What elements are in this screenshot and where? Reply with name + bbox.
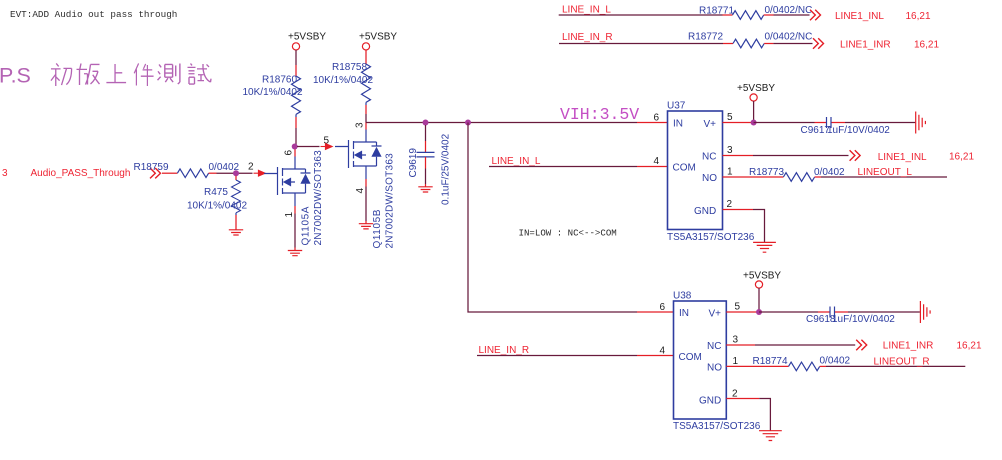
svg-text:5: 5 (727, 112, 733, 123)
junction node V+ U38 (756, 309, 762, 315)
svg-text:IN: IN (673, 119, 683, 130)
svg-text:C9619: C9619 (408, 148, 419, 178)
pin stub U38 V+ (726, 311, 759, 313)
svg-text:IN: IN (679, 308, 689, 319)
pin stub U37 V+ (723, 122, 754, 124)
svg-text:COM: COM (673, 163, 696, 174)
offpage connector LINE1_INR row2 (813, 38, 824, 48)
svg-text:NC: NC (707, 341, 721, 352)
pin ground stub C9619 (425, 184, 427, 187)
svg-text:GND: GND (694, 206, 716, 217)
svg-text:1: 1 (284, 212, 295, 218)
svg-text:10K/1%/0402: 10K/1%/0402 (313, 75, 373, 86)
capacitor C9618 1uF/10V/0402 (806, 307, 895, 326)
pin stub Q1105A source (1) (294, 206, 296, 214)
wire GND to ground (753, 210, 765, 243)
wire LINE_IN_L to R18771 (559, 14, 723, 16)
svg-text:LINE_IN_R: LINE_IN_R (562, 32, 613, 43)
svg-text:R18772: R18772 (688, 32, 723, 43)
pin stub R18774 right (820, 365, 826, 367)
junction node branch U38 (465, 120, 471, 126)
pin stub U37 NO + wire to R18773 (723, 176, 784, 178)
pin stub R18758 bottom (365, 105, 367, 114)
pin stub U38 NC (726, 344, 755, 346)
svg-text:4: 4 (355, 188, 366, 194)
resistor R18774 0/0402 (753, 356, 851, 371)
svg-text:LINE_IN_R: LINE_IN_R (479, 345, 530, 356)
svg-text:NO: NO (702, 173, 717, 184)
wire R18759 to Q1105A gate (217, 172, 253, 174)
svg-text:LINE_IN_L: LINE_IN_L (492, 156, 541, 167)
junction node V+ U37 (751, 120, 757, 126)
ground R475 (229, 230, 243, 235)
title CJK 件 (134, 63, 153, 86)
resistor R18773 0/0402 (749, 167, 845, 181)
svg-text:LINE1_INR: LINE1_INR (840, 40, 891, 51)
pin ground stub Q1105A (294, 248, 296, 251)
power symbol +5VSBY (U37) (737, 83, 775, 101)
svg-text:R18758: R18758 (332, 62, 367, 73)
wire R18772 to offpage (773, 43, 812, 45)
pin stub C9618 left (818, 311, 830, 313)
svg-text:R18773: R18773 (749, 167, 784, 178)
ground Q1105A (288, 251, 302, 256)
svg-text:U38: U38 (673, 291, 692, 302)
wire R18760 to node 6 (295, 128, 297, 147)
junction node C9619 (423, 120, 429, 126)
wire GND to ground U38 (759, 399, 770, 431)
svg-text:16,21: 16,21 (906, 11, 931, 22)
pin stub R18760 bottom (295, 117, 297, 128)
wire C9617 to ground (845, 122, 915, 124)
wire node6 to Q1105B gate (297, 146, 320, 148)
wire LINEOUT_R (826, 365, 965, 367)
svg-text:+5VSBY: +5VSBY (737, 83, 775, 94)
wire power to V+ node U38 (758, 288, 760, 312)
svg-text:LINE_IN_L: LINE_IN_L (562, 5, 611, 16)
wire R18758 to drain node (365, 114, 367, 123)
svg-text:1uF/10V/0402: 1uF/10V/0402 (832, 314, 895, 325)
pin stub U38 NO + wire to R18774 (726, 365, 788, 367)
transistor Q1105B 2N7002DW/SOT363 (335, 130, 396, 249)
svg-text:Q1105A: Q1105A (301, 206, 312, 246)
svg-text:V+: V+ (704, 119, 717, 130)
wire V+ to C9617 (754, 122, 815, 124)
pin stub U38 COM (637, 355, 674, 357)
wire LINE_IN_L to COM (489, 166, 637, 168)
transistor Q1105A 2N7002DW/SOT363 (264, 150, 324, 246)
offpage connector LINE1_INR (NC) (856, 340, 867, 350)
svg-text:+5VSBY: +5VSBY (359, 32, 397, 43)
svg-text:1: 1 (727, 167, 733, 178)
pin stub C9619 bottom (425, 157, 427, 169)
svg-text:LINEOUT_L: LINEOUT_L (858, 167, 913, 178)
title CJK 版 (77, 63, 100, 85)
svg-text:LINEOUT_R: LINEOUT_R (874, 357, 930, 368)
svg-text:COM: COM (679, 352, 702, 363)
wire LINEOUT_L (821, 176, 947, 178)
ground Q1105B (359, 224, 373, 229)
offpage connector Audio_PASS_Through (150, 168, 161, 178)
svg-text:6: 6 (660, 302, 666, 313)
pin stub U38 GND (726, 398, 759, 400)
svg-text:C9617: C9617 (801, 125, 831, 136)
svg-text:R475: R475 (204, 187, 228, 198)
pin stub R18759 left (162, 172, 177, 174)
capacitor C9619 0.1uF/25V/0402 (408, 133, 452, 205)
svg-text:EVT:ADD Audio out pass through: EVT:ADD Audio out pass through (10, 9, 177, 20)
power symbol +5VSBY (R18758) (359, 32, 397, 51)
svg-text:R18774: R18774 (753, 356, 788, 367)
pin stub C9618 right (835, 311, 848, 313)
wire Q1105A source to ground (294, 214, 296, 248)
resistor R18759 (177, 169, 208, 178)
svg-text:TS5A3157/SOT236: TS5A3157/SOT236 (673, 421, 761, 432)
pin stub C9619 top (425, 141, 427, 152)
wire LINE_IN_R to R18772 (559, 43, 723, 45)
power symbol +5VSBY (R18760) (288, 32, 326, 51)
wire Q1105B source to ground (365, 187, 367, 222)
wire power to V+ node (753, 101, 755, 123)
pin stub Q1105B drain (3) (365, 123, 367, 130)
pin stub Q1105A drain (6) (294, 147, 296, 157)
svg-text:Audio_PASS_Through: Audio_PASS_Through (31, 168, 131, 179)
offpage connector LINE1_INL row1 (810, 10, 821, 20)
port Audio_PASS_Through (2, 168, 130, 179)
svg-text:3: 3 (727, 145, 733, 156)
svg-text:2N7002DW/SOT363: 2N7002DW/SOT363 (385, 153, 396, 249)
svg-text:6: 6 (654, 113, 660, 124)
svg-text:2: 2 (727, 199, 733, 210)
svg-text:16,21: 16,21 (914, 40, 939, 51)
wire power to R18760 (295, 50, 297, 65)
pin stub R18773 right (815, 176, 821, 178)
junction node R475 (233, 170, 239, 176)
svg-text:2: 2 (248, 162, 254, 173)
pin stub R18772 left (723, 43, 733, 45)
pin stub R18760 top (295, 65, 297, 76)
svg-text:R18759: R18759 (134, 162, 169, 173)
svg-text:NC: NC (702, 152, 716, 163)
svg-text:5: 5 (735, 302, 741, 313)
svg-text:0/0402/NC: 0/0402/NC (765, 32, 813, 43)
capacitor C9617 1uF/10V/0402 (801, 117, 891, 136)
wire C9619 upper (425, 125, 427, 141)
wire R18771 to offpage (774, 14, 810, 16)
op-amp U37 TS5A3157/SOT236 analog switch (667, 101, 755, 244)
svg-text:0/0402/NC: 0/0402/NC (765, 5, 813, 16)
pin stub R18771 left (723, 14, 733, 16)
svg-text:Q1105B: Q1105B (372, 209, 383, 249)
svg-text:0.1uF/25V/0402: 0.1uF/25V/0402 (441, 133, 452, 205)
svg-text:NO: NO (707, 363, 722, 374)
svg-text:R18771: R18771 (699, 5, 734, 16)
svg-text:LINE1_INL: LINE1_INL (835, 11, 884, 22)
op-amp U38 TS5A3157/SOT236 analog switch (673, 291, 761, 433)
svg-text:1: 1 (733, 356, 739, 367)
svg-text:3: 3 (2, 168, 8, 179)
svg-text:R18760: R18760 (262, 75, 297, 86)
pin stub R18759 right (209, 172, 217, 174)
wire C9618 to ground (848, 311, 920, 313)
pin arrow gate Q1105A (254, 170, 267, 177)
svg-text:1uF/10V/0402: 1uF/10V/0402 (827, 125, 890, 136)
resistor R18771 (733, 11, 764, 20)
pin stub U38 IN (637, 311, 674, 313)
svg-text:4: 4 (660, 346, 666, 357)
svg-text:VIH:3.5V: VIH:3.5V (560, 105, 639, 124)
pin stub R475 bottom (235, 215, 237, 230)
svg-text:16,21: 16,21 (957, 341, 982, 352)
pin stub R475 top (235, 176, 237, 180)
pin ground stub Q1105B (365, 221, 367, 224)
svg-text:LINE1_INR: LINE1_INR (883, 341, 934, 352)
title CJK 初 (51, 63, 72, 86)
svg-text:3: 3 (733, 335, 739, 346)
svg-text:TS5A3157/SOT236: TS5A3157/SOT236 (667, 232, 755, 243)
svg-text:0/0402: 0/0402 (814, 167, 845, 178)
title CJK 上 (106, 64, 126, 83)
pin stub C9617 right (832, 122, 846, 124)
svg-text:10K/1%/0402: 10K/1%/0402 (243, 87, 303, 98)
ground U38 (759, 431, 782, 441)
svg-text:IN=LOW : NC<-->COM: IN=LOW : NC<-->COM (519, 228, 617, 239)
svg-text:LINE1_INL: LINE1_INL (878, 152, 927, 163)
svg-text:10K/1%/0402: 10K/1%/0402 (187, 201, 247, 212)
ground (rotated) C9617 (916, 112, 926, 134)
wire drain net to U37 IN (366, 122, 637, 124)
svg-text:6: 6 (284, 150, 295, 156)
svg-text:+5VSBY: +5VSBY (288, 32, 326, 43)
pin stub R18772 right (764, 43, 773, 45)
pin stub R18771 right (764, 14, 774, 16)
svg-text:+5VSBY: +5VSBY (743, 271, 781, 282)
wire NC to offpage U38 (755, 344, 855, 346)
resistor R18758 10K/1%/0402 (313, 62, 373, 105)
ground C9619 (418, 187, 432, 192)
wire branch down to U38 IN (468, 123, 637, 313)
svg-text:3: 3 (355, 122, 366, 128)
pin stub U37 IN (637, 122, 668, 124)
svg-text:2N7002DW/SOT363: 2N7002DW/SOT363 (313, 150, 324, 246)
power symbol +5VSBY (U38) (743, 271, 781, 289)
pin arrow gate Q1105B (321, 143, 334, 150)
wire V+ to C9618 (759, 311, 818, 313)
title CJK 試 (188, 63, 212, 84)
pin stub U37 NC (723, 155, 754, 157)
svg-text:U37: U37 (667, 101, 686, 112)
pin stub C9617 left (815, 122, 827, 124)
offpage connector LINE1_INL (NC) (850, 150, 861, 160)
svg-text:0/0402: 0/0402 (820, 356, 851, 367)
svg-text:16,21: 16,21 (949, 152, 974, 163)
svg-text:4: 4 (654, 156, 660, 167)
svg-text:2: 2 (732, 389, 738, 400)
ground (rotated) C9618 (920, 301, 930, 323)
resistor R475 10K/1%/0402 (187, 180, 247, 215)
resistor R18760 10K/1%/0402 (243, 75, 303, 118)
wire LINE_IN_R to COM (477, 355, 637, 357)
svg-text:V+: V+ (709, 309, 722, 320)
pin stub U37 GND (723, 209, 754, 211)
title CJK 測 (158, 63, 180, 84)
wire C9619 to ground (425, 169, 427, 185)
svg-text:GND: GND (699, 396, 721, 407)
pin stub U37 COM (637, 166, 668, 168)
wire NC to offpage (753, 155, 849, 157)
junction node 6 (gate net) (292, 144, 298, 150)
svg-text:P.S: P.S (0, 64, 31, 88)
resistor R18772 (733, 39, 764, 48)
pin stub R18758 top (365, 50, 367, 64)
ground U37 (753, 242, 776, 252)
pin stub Q1105B source (4) (365, 179, 367, 187)
